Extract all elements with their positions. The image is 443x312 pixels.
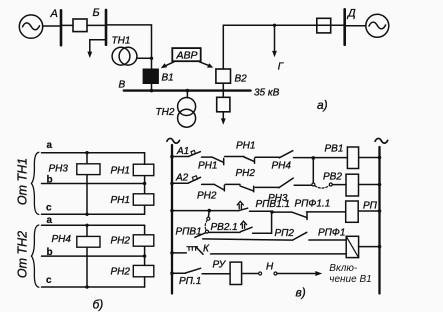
right rail [378, 147, 380, 294]
transformer TH2 [178, 92, 196, 128]
bus B (Б) [105, 10, 108, 45]
contact PH3 (NO) [279, 178, 293, 188]
breaker box A-B [73, 19, 87, 32]
wire B1 to bus V [151, 83, 153, 89]
svg-text:РН1: РН1 [236, 141, 255, 152]
wire breaker box to bus B [87, 24, 105, 26]
svg-text:Д: Д [346, 8, 356, 20]
bus A [60, 10, 63, 45]
svg-text:a: a [47, 215, 53, 226]
coil RV1 [347, 147, 379, 169]
svg-text:В: В [119, 80, 126, 91]
right rail ~ [375, 138, 388, 143]
svg-text:А: А [50, 8, 58, 20]
AVR arrow to B2 [200, 62, 214, 68]
svg-text:c: c [46, 203, 52, 214]
wire row1 node down to RV2 contact [312, 158, 314, 183]
svg-text:Б: Б [93, 7, 100, 19]
contact RPF1.1 (NC) [272, 212, 346, 220]
contact A1 (automaton) [172, 150, 200, 156]
AVR box U1 [172, 48, 200, 61]
node row1-RV2 branch [312, 156, 316, 160]
transformer TH1 [112, 47, 151, 65]
node rail row3 [170, 209, 174, 213]
wire RV2.1 branch left [209, 231, 241, 233]
svg-text:Вклю-: Вклю- [329, 263, 358, 274]
node b-PH2 [143, 254, 146, 257]
feeder arrow G [272, 25, 277, 57]
svg-text:b: b [47, 175, 53, 186]
bus V (В) 35 kV [124, 89, 251, 91]
contact RPV1.1 (NO accelerated) [237, 201, 272, 211]
contact PH2.2 (NC) [240, 186, 279, 192]
node TH2 on bus [186, 89, 190, 93]
svg-text:А2: А2 [175, 173, 189, 184]
AVR arrow to B1 [161, 62, 174, 69]
wire bus Б to B1 column [107, 25, 151, 69]
wire RU to button N [242, 273, 259, 275]
svg-text:РПВ1.1: РПВ1.1 [256, 199, 291, 210]
contact A2 (automaton) [172, 176, 201, 184]
svg-text:Г: Г [278, 62, 285, 73]
coil RV2 [346, 174, 380, 196]
svg-text:От ТН1: От ТН1 [16, 158, 30, 205]
device RU box [230, 262, 242, 284]
contact RP2 (NO) [293, 232, 307, 240]
svg-text:РВ2: РВ2 [323, 172, 342, 183]
relay PH1 lower box [133, 184, 154, 215]
contact PH4 (NO) [279, 151, 293, 158]
svg-text:РУ: РУ [213, 260, 227, 271]
svg-text:В2: В2 [235, 74, 248, 85]
contact PH2.1 (NC) [214, 184, 240, 191]
svg-text:РН1: РН1 [198, 161, 217, 172]
wire PH3 vertical [86, 153, 88, 215]
wire generator-left to bus A [43, 25, 60, 27]
wire row1 to node [294, 157, 348, 159]
node row3 B [270, 210, 274, 214]
wire PH4 vertical [86, 225, 88, 287]
contact RV2.1 (accelerated) [241, 212, 272, 233]
svg-text:РН2: РН2 [111, 236, 131, 247]
relay PH2 upper box [133, 225, 154, 256]
svg-text:РПФ1: РПФ1 [318, 228, 345, 239]
node rail row1 [170, 155, 174, 159]
node c-PH4 [85, 285, 88, 288]
svg-text:b: b [47, 247, 53, 258]
relay PH4 box [77, 236, 100, 247]
breaker box below B2 [217, 97, 230, 112]
node B1-bus [150, 89, 154, 93]
svg-text:c: c [46, 275, 52, 286]
wire bus D to generator right [346, 25, 366, 27]
svg-text:РН1: РН1 [111, 166, 130, 177]
svg-text:б): б) [93, 298, 104, 312]
node TH1 junction [150, 57, 153, 60]
svg-text:РПФ1.1: РПФ1.1 [295, 199, 331, 210]
svg-text:Н: Н [266, 262, 274, 273]
svg-text:a: a [47, 140, 53, 151]
contact K (control key) [172, 247, 346, 255]
node rail right row4 [378, 245, 382, 249]
button N (two circles) [259, 272, 277, 275]
svg-text:РВ2.1: РВ2.1 [211, 222, 238, 233]
svg-text:АВР: АВР [176, 50, 198, 62]
wire row2 seg2 [202, 183, 215, 185]
node a-PH3 [85, 151, 88, 154]
relay PH1 upper box [133, 153, 154, 184]
phase line c (lower) [42, 286, 145, 288]
arrow below B2 column [221, 112, 226, 125]
brace Ot TH2 [31, 225, 38, 287]
svg-text:РН3: РН3 [49, 164, 69, 175]
svg-text:РН4: РН4 [52, 234, 72, 245]
wire B2 top to right feeder line [223, 25, 344, 69]
svg-text:чение В1: чение В1 [329, 274, 371, 285]
label Vklyuchenie V1 [329, 263, 371, 285]
wire row2 to RV2 contact [294, 184, 312, 186]
feeder arrow from bus Б [87, 40, 104, 58]
contact PH1.1 (NC) [212, 157, 244, 165]
generator G-left [19, 15, 42, 38]
svg-text:РВ1: РВ1 [325, 144, 344, 155]
wire N to arrow [277, 271, 322, 276]
svg-text:А1: А1 [176, 146, 189, 157]
coil RP [346, 201, 380, 222]
brace Ot TH1 [31, 152, 38, 214]
svg-text:РН2: РН2 [236, 168, 256, 179]
wire B2 bottom through bus [222, 83, 224, 97]
contact RP.1 (NO) [172, 268, 230, 274]
wire RP2 row [203, 239, 293, 240]
svg-text:От ТН2: От ТН2 [16, 231, 30, 278]
svg-text:РН4: РН4 [272, 161, 292, 172]
node rail row2 [170, 182, 174, 186]
breaker box right [317, 18, 331, 33]
svg-text:РПВ1: РПВ1 [176, 227, 202, 238]
node rail right row1 [378, 156, 382, 160]
wire bus A to breaker box [62, 24, 73, 26]
node rail row6 [170, 272, 174, 276]
svg-text:РН1: РН1 [111, 195, 130, 206]
svg-text:РП: РП [363, 201, 378, 212]
generator G-right [366, 14, 389, 37]
breaker B1 (closed, filled) [143, 69, 158, 83]
relay PH3 box [77, 164, 100, 175]
svg-text:В1: В1 [162, 73, 174, 84]
node rail right row2 [378, 183, 382, 187]
node a-PH4 [85, 224, 88, 227]
contact RV2 (time delay, two circles dashed arc) [312, 183, 332, 188]
node G feeder junction [273, 24, 276, 27]
svg-text:35 кВ: 35 кВ [254, 88, 280, 99]
node b-PH1 [143, 182, 146, 185]
node c-PH3 [85, 213, 88, 216]
phase line c (upper) [42, 213, 145, 215]
bus D [343, 9, 346, 44]
phase line a (upper) [42, 152, 145, 154]
wire row1 seg2 [202, 156, 212, 158]
wire RP2 to coil RPF1 [309, 239, 346, 241]
svg-text:РН2: РН2 [197, 191, 217, 202]
wire RV2 contact to coil [332, 184, 346, 186]
svg-text:ТН1: ТН1 [112, 36, 131, 47]
coil RPF1 (polarized) [346, 236, 379, 257]
svg-text:К: К [203, 244, 210, 255]
contact PH1.2 (NC) [244, 157, 279, 163]
node rail K row [170, 251, 174, 255]
contact RPV1 (slow, hanging) [195, 211, 210, 238]
svg-text:а): а) [317, 98, 328, 112]
breaker B2 (open) [216, 69, 231, 83]
phase line a (lower) [42, 224, 145, 226]
svg-text:РП2: РП2 [275, 228, 295, 239]
svg-text:в): в) [296, 286, 306, 300]
node row3-RPV1 [208, 209, 212, 213]
svg-text:РН2: РН2 [111, 267, 131, 278]
relay PH2 lower box [133, 256, 154, 287]
phase line b (upper) [42, 183, 145, 185]
phase line b (lower) [42, 255, 145, 257]
wire row3 left [172, 210, 238, 212]
svg-text:ТН2: ТН2 [156, 107, 175, 118]
left rail ~ [167, 138, 180, 143]
svg-text:РП.1: РП.1 [179, 276, 201, 287]
node rail right row3 [378, 209, 382, 213]
left rail [171, 145, 173, 294]
